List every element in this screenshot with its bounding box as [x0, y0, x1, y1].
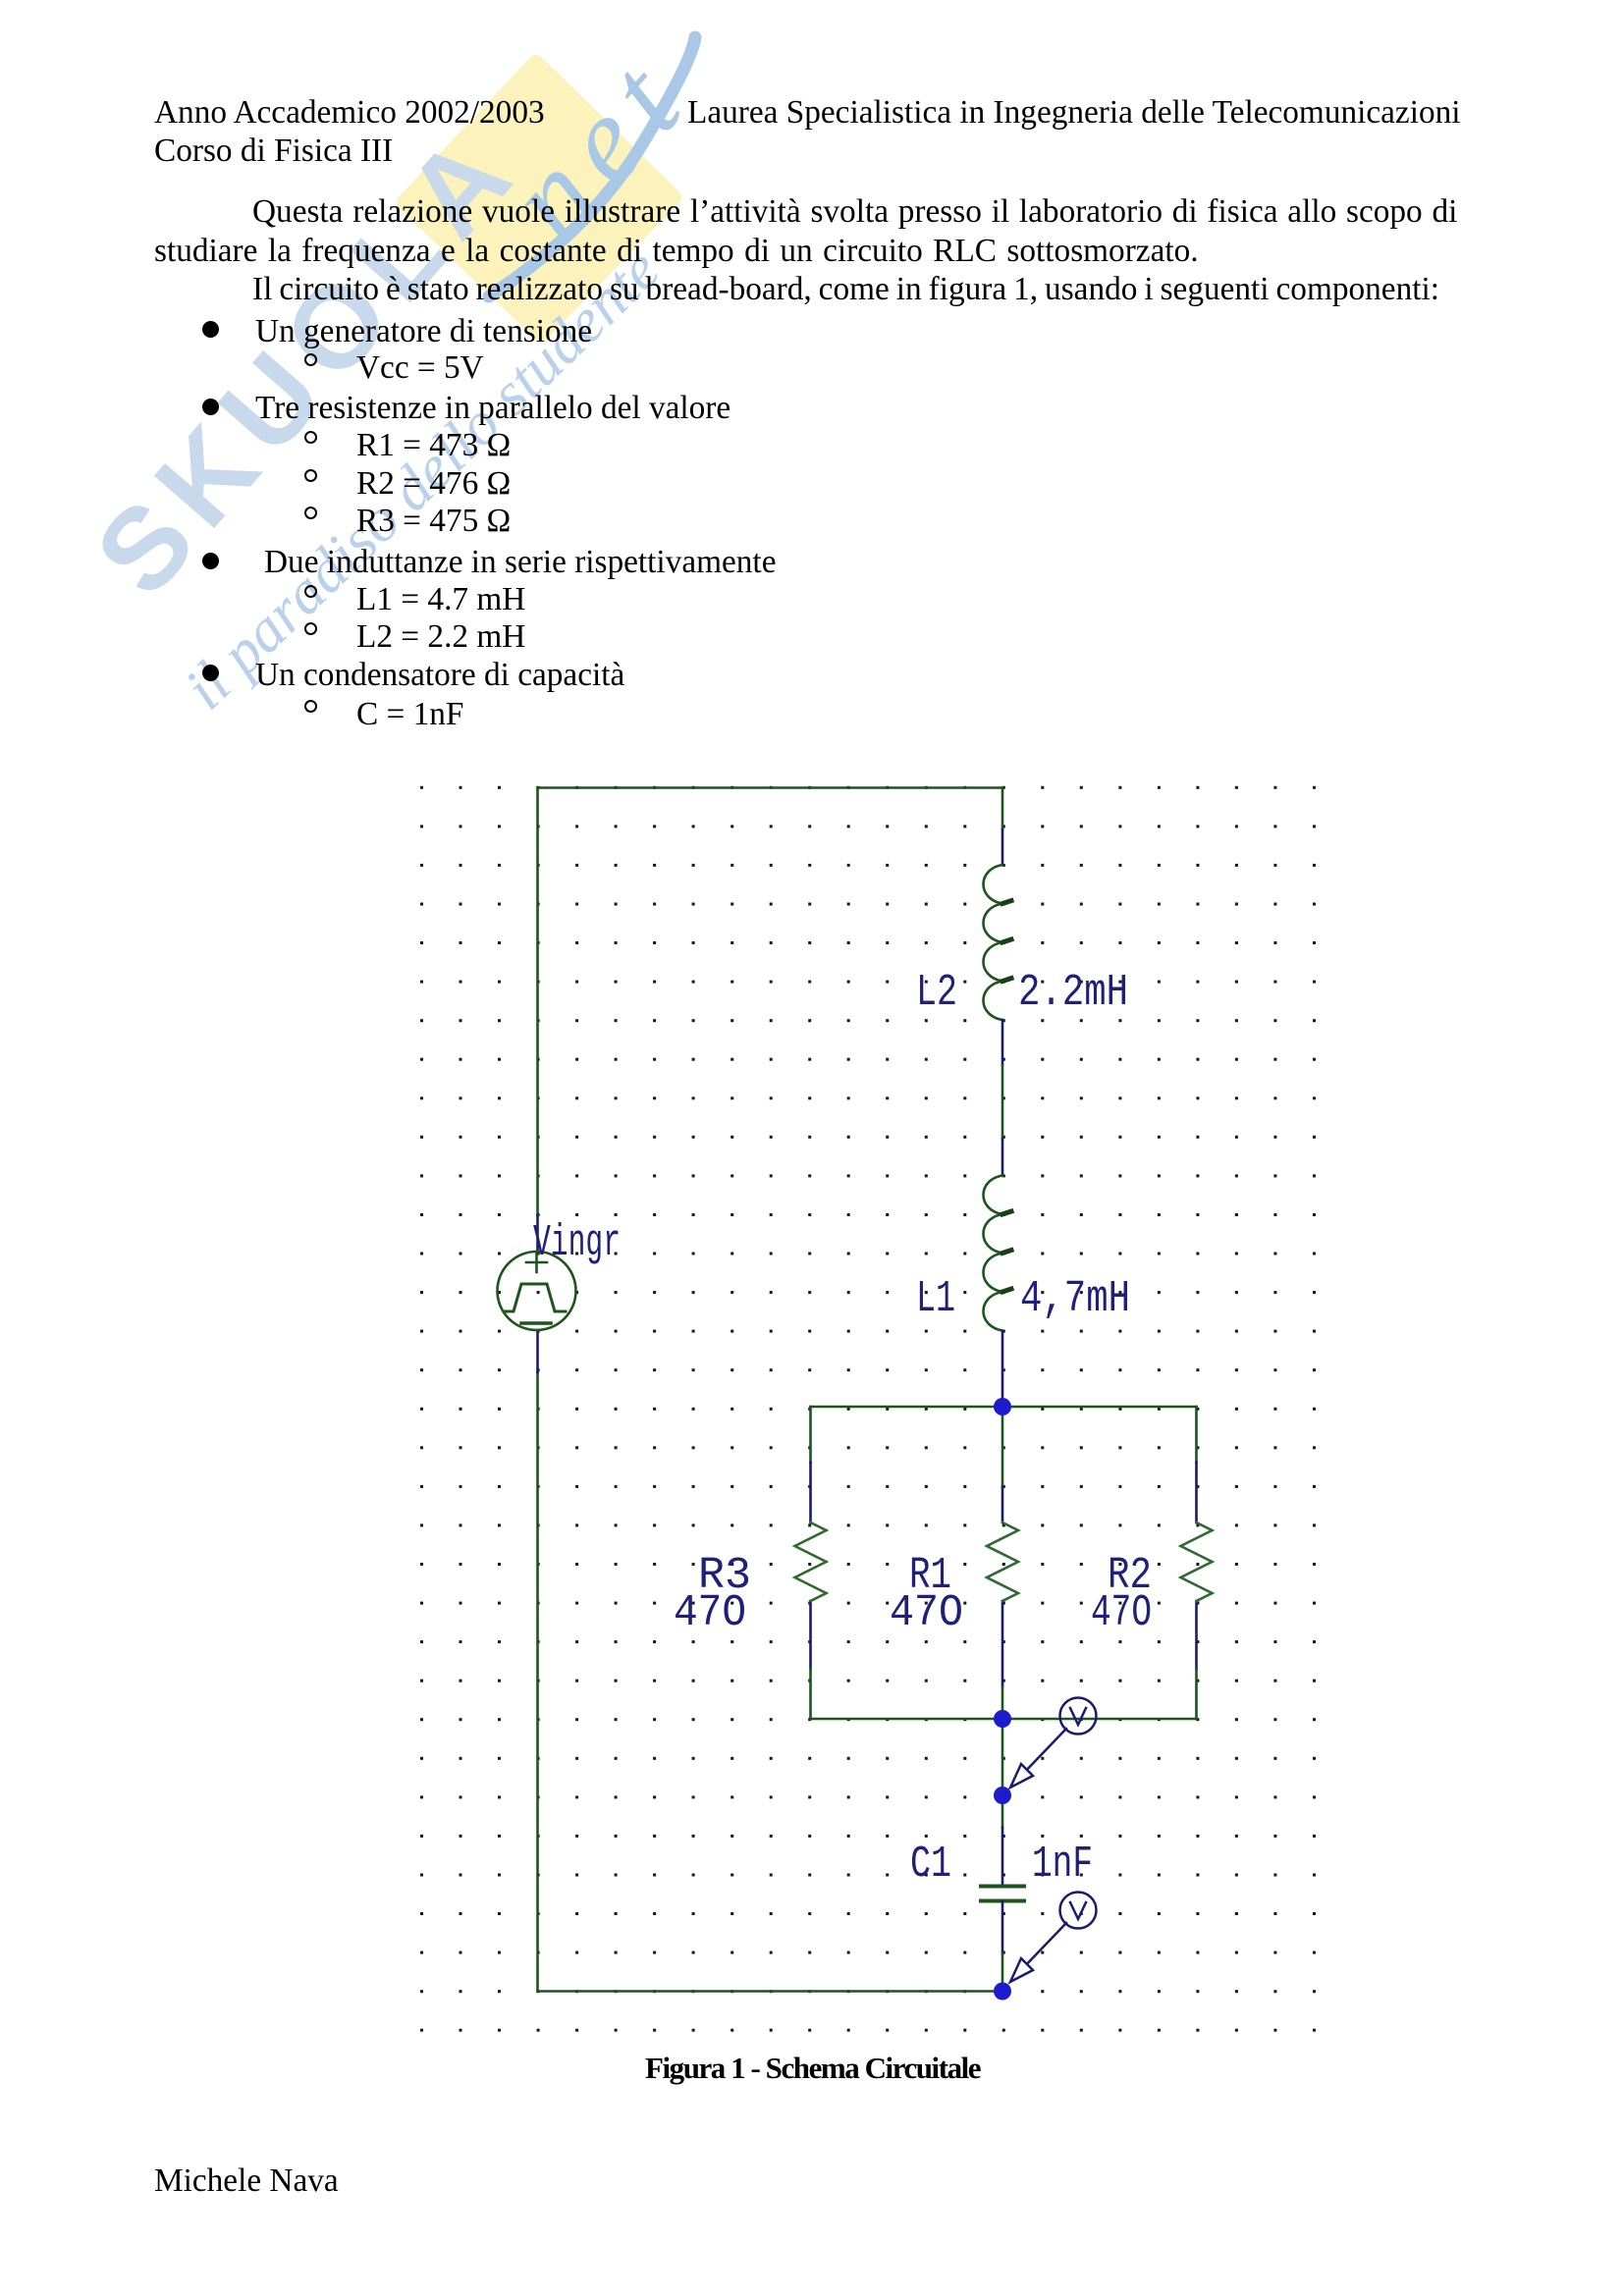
voltage source Vingr (pulse generator)	[498, 1252, 576, 1330]
wire node B to probe node	[1001, 1719, 1004, 1795]
junction bottom node	[994, 1983, 1011, 2001]
script net	[480, 27, 718, 268]
inductor L2	[984, 865, 1012, 1020]
wire source bottom pin stub	[536, 1330, 539, 1372]
slogan	[171, 235, 675, 724]
wire C1 to bottom	[1001, 1901, 1004, 1953]
wire box right upper	[1195, 1407, 1198, 1463]
svg-text:L1: L1	[916, 1274, 955, 1324]
voltmeter probe VM2	[1010, 1893, 1097, 1983]
resistor R1	[987, 1522, 1018, 1601]
svg-text:1nF: 1nF	[1032, 1840, 1093, 1890]
wire L1 to node A	[1001, 1331, 1004, 1407]
svg-text:L2: L2	[916, 968, 957, 1018]
wire box right lower	[1195, 1601, 1198, 1669]
svg-text:C1: C1	[910, 1840, 951, 1890]
svg-text:Vingr: Vingr	[533, 1218, 621, 1268]
wire center above R1	[1001, 1407, 1004, 1487]
voltmeter probe VM1	[1010, 1698, 1097, 1789]
wire left vertical	[536, 788, 539, 1216]
junction node B (bottom of resistor bank)	[994, 1710, 1011, 1728]
wire center below R1	[1001, 1601, 1004, 1686]
capacitor C1	[981, 1887, 1024, 1901]
svg-text:47O: 47O	[1091, 1588, 1152, 1638]
wire top horizontal	[538, 786, 1003, 789]
yellow diamond	[0, 0, 884, 687]
junction node A (top of resistor bank)	[994, 1398, 1011, 1415]
junction probe node	[994, 1787, 1011, 1804]
inductor L1	[984, 1176, 1012, 1331]
svg-text:47O: 47O	[674, 1588, 746, 1638]
wire bottom horizontal	[538, 1990, 1003, 1993]
svg-text:47O: 47O	[890, 1588, 963, 1638]
big SKUOLA	[70, 102, 546, 621]
wire center top stub	[1001, 788, 1004, 830]
wire box left upper	[809, 1407, 812, 1463]
resistor R2	[1181, 1522, 1213, 1601]
wire probe node to C1	[1001, 1795, 1004, 1828]
wire box left lower	[809, 1601, 812, 1669]
wire resistor box top	[811, 1406, 1197, 1409]
resistor R3	[795, 1522, 827, 1601]
wire between L2 and L1	[1001, 1020, 1004, 1065]
wire source top pin stub	[536, 1215, 539, 1252]
wire resistor box bottom	[811, 1718, 1197, 1721]
svg-text:4,7mH: 4,7mH	[1020, 1274, 1130, 1324]
svg-text:2.2mH: 2.2mH	[1018, 968, 1128, 1018]
